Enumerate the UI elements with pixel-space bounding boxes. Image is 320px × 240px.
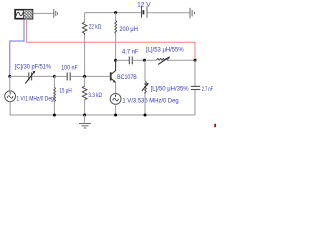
capacitor 100 nF — [67, 72, 70, 80]
top rail wire — [85, 12, 141, 14]
red indicator fragment at edge — [214, 124, 216, 127]
wire collector row — [116, 59, 129, 61]
wire — [32, 75, 54, 77]
svg-text:22 kΩ: 22 kΩ — [89, 24, 102, 31]
oscilloscope icon XSC1 — [15, 9, 33, 19]
svg-text:[C]/30 pF/51%: [C]/30 pF/51% — [15, 63, 52, 70]
ground (battery, rotated right) — [190, 8, 195, 19]
ground bottom — [79, 115, 91, 128]
svg-text:4.7 nF: 4.7 nF — [122, 49, 139, 56]
resistor R1 22 kOhm — [82, 13, 87, 76]
svg-text:12 V: 12 V — [137, 1, 151, 8]
battery 12 V — [142, 6, 148, 18]
transistor Q1 BC107B — [111, 60, 116, 93]
svg-text:15 μH: 15 μH — [59, 87, 71, 94]
svg-text:1 V/3.535 MHz/0 Deg: 1 V/3.535 MHz/0 Deg — [122, 98, 179, 105]
wire base row — [85, 75, 111, 77]
svg-text:200 μH: 200 μH — [119, 26, 137, 33]
wire battery to ground — [148, 12, 190, 14]
junction right node — [194, 59, 197, 62]
junction bottom source V2 — [114, 114, 117, 117]
svg-text:BC107B: BC107B — [117, 74, 137, 81]
ground (scope, rotated right) — [54, 9, 58, 18]
svg-text:100 nF: 100 nF — [61, 65, 78, 72]
bottom rail wire — [10, 114, 195, 116]
junction base node — [83, 75, 86, 78]
wire — [133, 59, 157, 61]
red wire scope channel A — [27, 19, 195, 59]
svg-text:2.7 nF: 2.7 nF — [202, 86, 213, 93]
svg-text:3.3 kΩ: 3.3 kΩ — [88, 92, 102, 99]
blue wire scope channel B — [10, 19, 24, 76]
svg-text:[L]/50 μH/35%: [L]/50 μH/35% — [151, 85, 189, 92]
junction collector node — [114, 59, 117, 62]
wire — [169, 59, 195, 61]
source V2 sine 1V 3.535MHz — [110, 94, 121, 116]
resistor R2 3.3 kOhm — [82, 76, 87, 115]
junction bottom ground — [83, 114, 86, 117]
wire — [71, 75, 85, 77]
svg-text:1 V/1 MHz/0 Deg: 1 V/1 MHz/0 Deg — [16, 95, 54, 102]
junction — [53, 75, 56, 78]
wire — [10, 75, 28, 77]
junction left node — [8, 75, 11, 78]
junction bottom varL — [144, 114, 147, 117]
junction — [143, 59, 146, 62]
variable inductor [L] 50uH vertical — [142, 60, 149, 115]
inductor 200 uH — [115, 13, 117, 61]
wire scope to ground — [33, 12, 53, 14]
inductor 15 uH — [54, 76, 56, 115]
capacitor 4.7 nF — [129, 56, 132, 64]
variable capacitor [C] 30 pF — [25, 71, 35, 84]
source V1 sine 1V 1MHz — [5, 76, 16, 115]
capacitor 2.7 nF — [191, 60, 200, 115]
svg-text:[L]/53 μH/55%: [L]/53 μH/55% — [146, 47, 184, 54]
wire — [54, 75, 66, 77]
junction bottom 15uH — [53, 114, 56, 117]
junction top (battery/200uH) — [114, 11, 117, 14]
variable inductor [L] 53uH horizontal — [156, 57, 170, 65]
